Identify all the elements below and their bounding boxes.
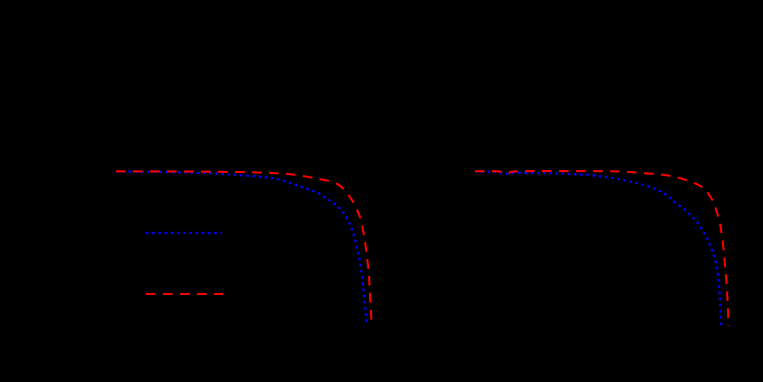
legend key blue dotted line: [146, 232, 222, 234]
right panel red dashed curve: [475, 171, 729, 326]
legend key red dashed line: [146, 293, 223, 295]
left panel blue dotted curve: [116, 172, 367, 325]
left panel red dashed curve: [116, 171, 372, 325]
right panel blue dotted curve: [475, 172, 721, 326]
